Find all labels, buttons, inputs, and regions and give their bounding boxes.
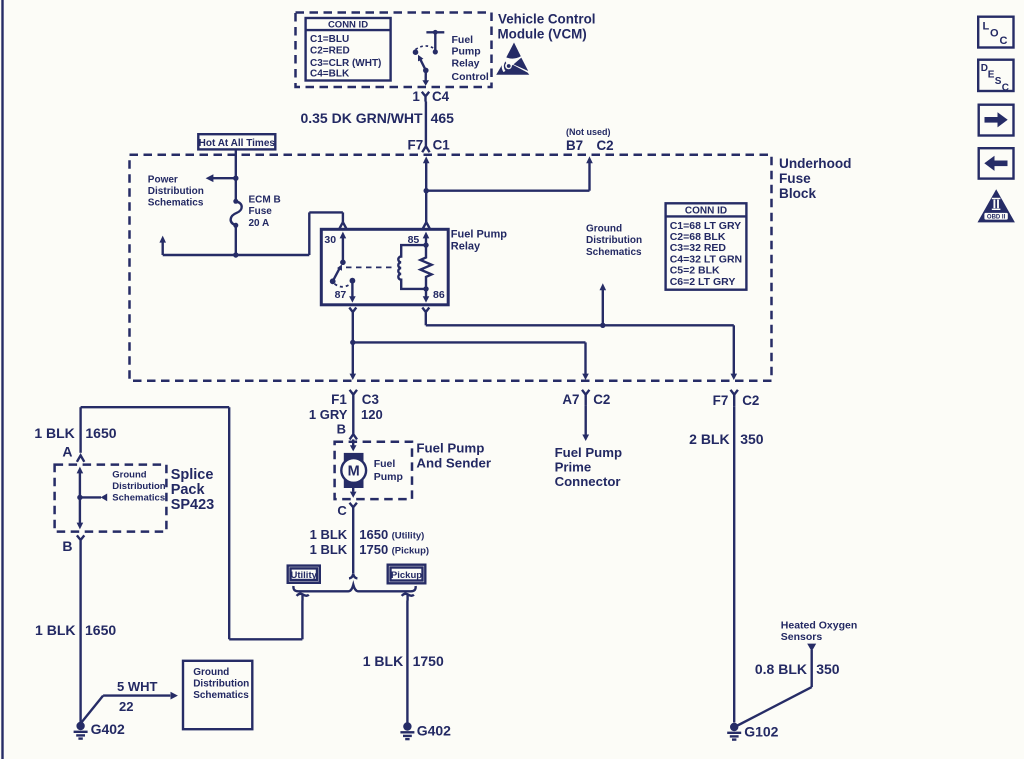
svg-text:C2: C2 <box>593 392 610 407</box>
wire label 1 BLK 1650 (Utility) <box>310 527 425 542</box>
Utility option box <box>288 566 320 583</box>
wire label 1 GRY 120 <box>309 407 383 422</box>
wire Pickup branch down to G402 <box>406 601 408 723</box>
svg-text:Distribution: Distribution <box>193 679 249 690</box>
splice junction node <box>77 495 82 500</box>
svg-text:Pump: Pump <box>452 46 481 58</box>
back arrow icon <box>979 148 1014 178</box>
svg-text:ECM B: ECM B <box>249 195 281 206</box>
svg-text:1650: 1650 <box>359 527 388 542</box>
relay socket Y below pin 87 <box>349 308 356 318</box>
svg-text:1 BLK: 1 BLK <box>35 622 75 638</box>
heated oxygen sensors branch wire 0.8 BLK 350 <box>735 644 817 727</box>
svg-text:Fuel Pump: Fuel Pump <box>451 229 508 241</box>
svg-text:1 BLK: 1 BLK <box>310 527 348 542</box>
svg-text:C: C <box>337 503 347 518</box>
wire label 1 BLK 1750 (Pickup) <box>310 542 429 557</box>
svg-text:350: 350 <box>816 661 840 677</box>
wire VCM to fuse block: 0.35 DK GRN/WHT 465 <box>425 102 427 138</box>
svg-text:F1: F1 <box>331 392 347 407</box>
svg-text:C: C <box>1002 83 1009 94</box>
svg-text:Utility: Utility <box>291 570 318 581</box>
connector 1 C4 (VCM output) <box>412 89 449 104</box>
svg-text:87: 87 <box>335 289 347 301</box>
fuse label: ECM B Fuse 20 A <box>249 195 281 229</box>
Underhood Fuse Block dashed box <box>130 155 772 381</box>
dashed arc contact 87 <box>335 284 351 287</box>
reference arrow up to Ground Distribution Schematics <box>600 283 607 325</box>
svg-text:350: 350 <box>740 431 764 447</box>
svg-text:C1=BLU: C1=BLU <box>310 34 349 45</box>
svg-text:SP423: SP423 <box>171 497 215 513</box>
motor label: Fuel Pump <box>374 458 403 483</box>
wire B down to G402 <box>79 545 81 723</box>
svg-text:G402: G402 <box>91 721 125 737</box>
svg-text:C3=CLR (WHT): C3=CLR (WHT) <box>310 58 381 69</box>
svg-text:C4: C4 <box>432 89 450 104</box>
svg-text:Fuse: Fuse <box>249 206 273 217</box>
relay pin 87 <box>335 278 356 303</box>
wire label 1 BLK 1650 (lower left) <box>35 622 116 638</box>
svg-text:Fuel: Fuel <box>374 458 396 470</box>
svg-text:CONN ID: CONN ID <box>328 20 368 31</box>
VCM dashed box (Vehicle Control Module) <box>296 13 492 88</box>
svg-text:B7: B7 <box>566 138 583 153</box>
wire prime connector with down arrow <box>582 406 589 441</box>
svg-text:Pack: Pack <box>171 482 206 498</box>
svg-text:Vehicle Control: Vehicle Control <box>498 12 595 27</box>
svg-text:Power: Power <box>148 174 178 185</box>
svg-text:Connector: Connector <box>555 474 621 489</box>
svg-text:30: 30 <box>324 234 336 246</box>
svg-text:Pickup: Pickup <box>391 570 422 581</box>
svg-text:B: B <box>62 538 72 554</box>
wire F7 C2 down to G102: 2 BLK 350 <box>713 390 760 408</box>
wire from F7 C1 down into fuse block with up-arrow <box>423 156 430 190</box>
connector F7 C1 (fuse block entry) <box>408 137 451 153</box>
Splice Pack SP423 dashed box <box>55 465 167 532</box>
svg-text:1750: 1750 <box>359 542 388 557</box>
selection brace <box>293 585 415 592</box>
svg-text:A7: A7 <box>562 392 579 407</box>
wire junction down to relay pin 85 socket <box>423 191 430 229</box>
wire 5 WHT 22 to ground distribution <box>81 692 178 724</box>
LOC navigation icon <box>978 17 1013 48</box>
junction node coil top <box>423 242 428 247</box>
connector F1 C3 labels <box>331 392 379 407</box>
wire label 1 BLK 1750 <box>363 653 444 669</box>
svg-text:C6=2 LT GRY: C6=2 LT GRY <box>670 276 736 288</box>
wire Utility branch to splice pack A <box>81 407 303 639</box>
svg-text:Schematics: Schematics <box>112 492 165 503</box>
svg-text:Underhood: Underhood <box>779 156 852 171</box>
CONN ID table (underhood fuse block) <box>666 203 747 289</box>
Power Distribution Schematics label <box>148 174 204 208</box>
wire branch to B7 C2 with up-arrow <box>426 156 593 190</box>
svg-text:1 BLK: 1 BLK <box>310 542 348 557</box>
fuel pump relay box <box>321 229 448 304</box>
svg-text:Sensors: Sensors <box>781 631 823 643</box>
svg-text:And Sender: And Sender <box>416 455 491 470</box>
svg-text:C2: C2 <box>597 138 614 153</box>
svg-text:Fuel: Fuel <box>452 34 474 46</box>
svg-text:22: 22 <box>119 699 133 714</box>
CONN ID table (VCM) <box>306 18 391 81</box>
fuel pump relay control switch (inside VCM) <box>413 30 445 86</box>
svg-text:(Utility): (Utility) <box>392 530 425 541</box>
svg-text:C4=BLK: C4=BLK <box>310 69 350 80</box>
junction node <box>233 176 238 181</box>
Pickup branch connector hook <box>402 594 414 601</box>
Pickup option box <box>388 565 426 584</box>
svg-text:Distribution: Distribution <box>112 481 165 492</box>
svg-text:1750: 1750 <box>413 653 444 669</box>
svg-text:0.35 DK GRN/WHT: 0.35 DK GRN/WHT <box>300 110 423 126</box>
svg-text:Pump: Pump <box>374 471 403 483</box>
wire into fuel pump module <box>350 439 357 451</box>
connector C (pump ground lead) <box>337 503 356 518</box>
svg-text:0.8 BLK: 0.8 BLK <box>755 661 807 677</box>
relay pin 86 <box>423 289 445 303</box>
svg-text:Ground: Ground <box>112 469 146 480</box>
wire C down to splice options <box>352 513 354 574</box>
svg-text:Fuel Pump: Fuel Pump <box>416 441 484 456</box>
ground G402 (left) <box>74 721 125 738</box>
svg-text:M: M <box>348 464 360 480</box>
svg-text:1 BLK: 1 BLK <box>363 653 403 669</box>
reference arrow to Ground Distribution Schematics (splice) <box>80 494 107 502</box>
OBD II triangle icon <box>978 189 1015 222</box>
svg-text:F7: F7 <box>713 393 729 408</box>
svg-text:1 BLK: 1 BLK <box>34 425 74 441</box>
wire down to G102 <box>733 407 735 723</box>
svg-text:(Not used): (Not used) <box>566 127 611 137</box>
svg-text:Schematics: Schematics <box>586 247 642 258</box>
wire branch left with up-arrow <box>159 236 235 255</box>
wire fuse to relay pin 30 socket <box>236 212 346 255</box>
Splice Pack SP423 label <box>171 467 215 513</box>
junction node pin 87 branch <box>350 340 355 345</box>
wire end flare above brace <box>349 574 357 579</box>
svg-text:C5=2 BLK: C5=2 BLK <box>670 264 720 276</box>
wire label 2 BLK 350 <box>689 431 764 447</box>
Ground Distribution Schematics label (splice) <box>112 469 165 503</box>
fuel pump motor M1 <box>341 453 366 488</box>
connector A chevron <box>77 455 84 461</box>
svg-text:Fuse: Fuse <box>779 171 811 186</box>
ESD sensitivity symbol <box>496 43 529 75</box>
svg-text:Relay: Relay <box>452 57 480 69</box>
svg-text:Splice: Splice <box>171 467 214 483</box>
svg-text:Distribution: Distribution <box>148 186 204 197</box>
svg-text:C2=RED: C2=RED <box>310 46 350 57</box>
fuse ECM B 20 A <box>231 199 242 228</box>
Ground Distribution Schematics box <box>183 661 252 729</box>
svg-text:B: B <box>337 421 346 436</box>
svg-text:Module (VCM): Module (VCM) <box>498 26 587 41</box>
relay pin 85 <box>408 232 430 246</box>
relay coil <box>398 245 426 289</box>
wire from Hot At All Times down to fuse <box>235 150 237 202</box>
wire label 5 WHT 22 <box>117 679 158 714</box>
svg-text:Relay: Relay <box>451 241 481 253</box>
Fuel Pump Prime Connector label <box>555 445 622 489</box>
switch label: Fuel Pump Relay Control <box>452 34 489 83</box>
svg-text:Distribution: Distribution <box>586 235 642 246</box>
svg-text:Control: Control <box>452 71 489 83</box>
forward arrow icon <box>979 105 1014 136</box>
Fuel Pump And Sender label <box>416 441 491 471</box>
wire branch to A7 C2 <box>353 342 589 380</box>
svg-text:20 A: 20 A <box>249 218 270 229</box>
wire label 1 BLK 1650 (upper left) <box>34 425 116 441</box>
svg-text:86: 86 <box>433 289 445 301</box>
svg-text:Schematics: Schematics <box>148 198 204 209</box>
svg-text:85: 85 <box>408 234 420 246</box>
wire fuse output <box>235 225 237 255</box>
page left border line <box>1 0 3 759</box>
reference arrow to Power Distribution Schematics <box>206 174 236 182</box>
relay pin 30 <box>324 232 346 263</box>
svg-text:1650: 1650 <box>85 622 116 638</box>
svg-text:C2: C2 <box>742 393 759 408</box>
svg-text:C: C <box>1000 35 1008 47</box>
svg-text:Ground: Ground <box>193 667 229 678</box>
svg-text:5 WHT: 5 WHT <box>117 679 158 694</box>
svg-text:Ground: Ground <box>586 224 622 235</box>
svg-text:465: 465 <box>431 110 455 126</box>
svg-text:120: 120 <box>361 407 383 422</box>
junction node <box>233 252 238 257</box>
relay socket Y below pin 86 <box>422 308 429 318</box>
relay actuation dashed link <box>346 266 395 268</box>
connector B Y <box>77 535 84 545</box>
relay coil suppression resistor <box>420 245 431 289</box>
junction node coil bottom <box>423 286 428 291</box>
svg-text:Schematics: Schematics <box>193 690 249 701</box>
svg-text:1650: 1650 <box>85 425 116 441</box>
Utility branch connector hook <box>297 594 309 601</box>
junction node ground ref branch <box>600 323 605 328</box>
svg-text:Fuel Pump: Fuel Pump <box>555 445 622 460</box>
connector B7 C2 (not used) <box>566 138 614 153</box>
Heated Oxygen Sensors label <box>781 620 857 644</box>
svg-text:1 GRY: 1 GRY <box>309 407 348 422</box>
wire label 0.8 BLK 350 <box>755 661 840 677</box>
relay switch arm <box>330 260 346 285</box>
junction node on VCM wire <box>424 188 429 193</box>
svg-text:Prime: Prime <box>555 459 592 474</box>
svg-text:C1: C1 <box>433 138 451 153</box>
svg-text:C3: C3 <box>362 392 379 407</box>
svg-text:(Pickup): (Pickup) <box>392 545 429 556</box>
DESC navigation icon <box>978 60 1013 94</box>
wire pin 87 down to F1 C3 <box>350 317 357 380</box>
svg-text:2 BLK: 2 BLK <box>689 431 729 447</box>
svg-text:G102: G102 <box>744 724 778 740</box>
svg-text:L: L <box>983 21 990 33</box>
wire motor output with down arrow <box>350 488 357 498</box>
relay label: Fuel Pump Relay <box>451 229 508 253</box>
Underhood Fuse Block label <box>779 156 852 201</box>
svg-text:Heated Oxygen: Heated Oxygen <box>781 620 857 632</box>
connector A7 C2 (fuel pump prime) <box>562 390 610 407</box>
svg-text:OBD II: OBD II <box>987 215 1006 221</box>
svg-text:F7: F7 <box>408 138 424 153</box>
ground G402 (pickup) <box>400 722 451 739</box>
inline connector below F1 C3 <box>350 390 357 440</box>
Ground Distribution Schematics label (fuse block) <box>586 224 642 258</box>
Hot At All Times box <box>198 134 275 149</box>
svg-text:1: 1 <box>412 89 420 104</box>
wire pin 86 to F7 C2 <box>426 317 737 380</box>
svg-text:E: E <box>988 70 995 81</box>
ground G102 <box>727 723 778 740</box>
VCM label: Vehicle Control Module (VCM) <box>498 12 596 42</box>
svg-text:Hot At All Times: Hot At All Times <box>199 138 276 149</box>
Fuel Pump And Sender dashed box <box>335 442 412 499</box>
svg-text:O: O <box>990 28 999 40</box>
svg-text:CONN ID: CONN ID <box>685 206 727 217</box>
svg-text:A: A <box>62 444 72 460</box>
svg-text:G402: G402 <box>417 722 451 738</box>
splice pack internal wire with arrows <box>77 467 84 530</box>
svg-text:S: S <box>995 76 1002 87</box>
svg-text:Block: Block <box>779 186 816 201</box>
